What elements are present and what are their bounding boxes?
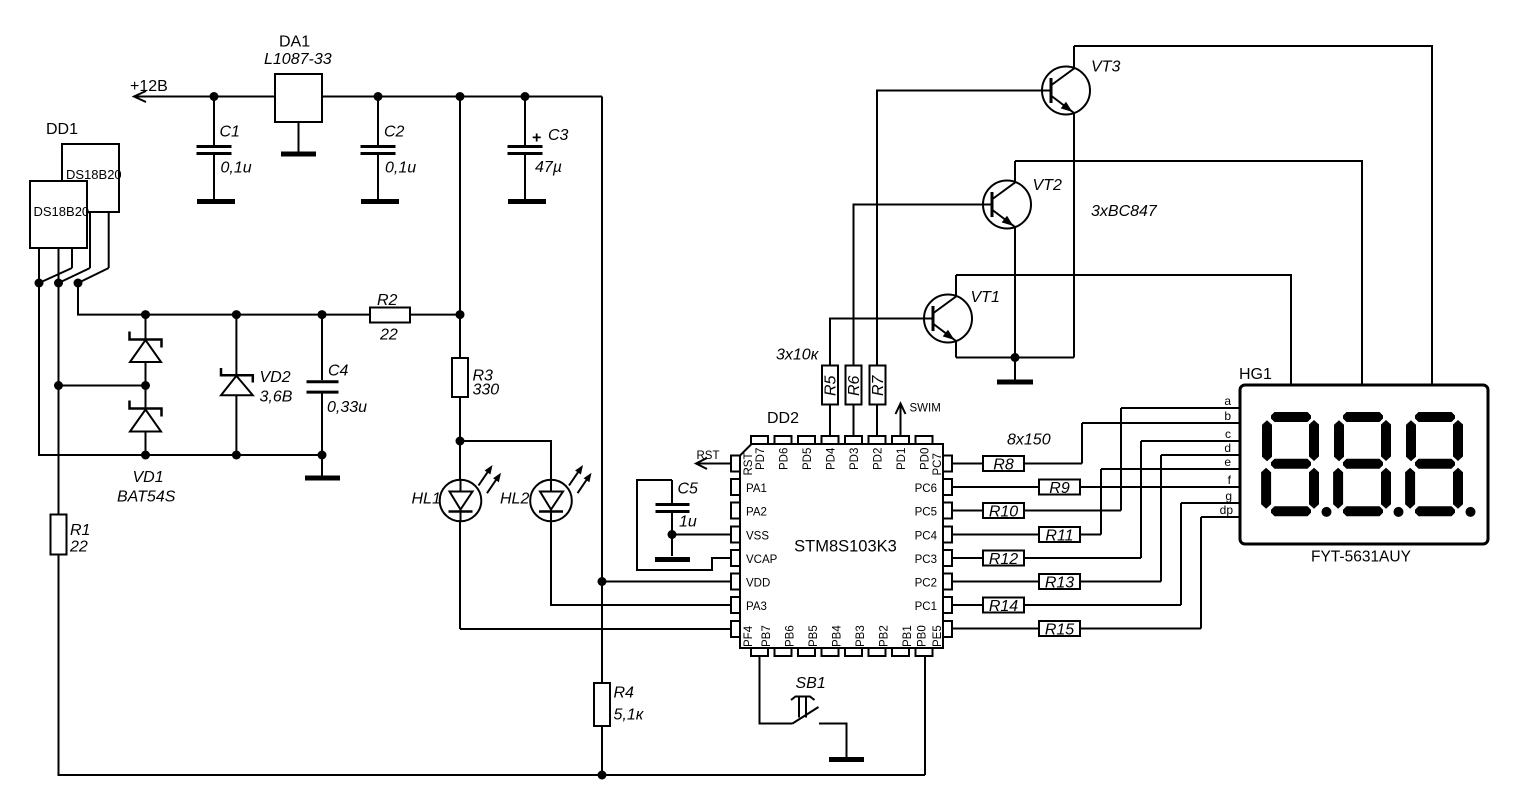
svg-text:PA2: PA2 [746,507,767,519]
svg-text:PC4: PC4 [915,531,938,543]
svg-text:dp: dp [1220,503,1234,517]
MCU pins top [751,436,933,444]
svg-text:PC5: PC5 [915,507,937,519]
wire HL1 cathode down [459,521,461,629]
wire VT3 emitter down [1073,113,1075,358]
resistor R15 [952,628,1201,630]
MCU pin labels bottom [761,625,929,647]
svg-text:PA3: PA3 [746,601,767,613]
wire C4 gnd stub [321,455,323,476]
resistor R3 [452,358,468,397]
node junction VD2 bottom [232,451,241,460]
svg-text:22: 22 [379,327,398,344]
wire R15 riser to dp [1200,517,1202,629]
svg-text:PD4: PD4 [826,447,838,470]
svg-text:PC6: PC6 [915,483,937,495]
diode VD1 upper schottky [130,315,162,386]
svg-text:R11: R11 [1045,528,1073,545]
ground C3 [508,199,546,204]
wire PB0 to bottom rail [924,656,926,775]
node junction DQ tap [54,381,63,390]
svg-text:C5: C5 [678,481,699,498]
wire front sensor pin 2 [58,248,60,283]
svg-text:R2: R2 [377,292,398,309]
wire R4 bottom [601,726,603,775]
wire rear sensor pin GND stub [71,248,73,268]
svg-text:PB0: PB0 [917,625,929,647]
transistor VT2 [983,161,1062,243]
wire DA1 gnd lead [298,122,300,152]
node junction VD1 top [141,310,150,319]
wire RST [696,463,731,465]
arrow RST [696,458,707,469]
MCU pin labels left [743,453,778,648]
svg-text:PD1: PD1 [896,448,908,470]
wire VT2 emitter down [1014,227,1016,358]
svg-text:VT3: VT3 [1091,59,1120,76]
node junction C1 [210,92,219,101]
ground DA1 [281,152,316,157]
wire PD4 to R5 [829,405,831,437]
wire R8 riser to b [1081,423,1083,464]
svg-text:3,6В: 3,6В [260,389,293,406]
wire HL1 cathode to PF4 [460,628,731,630]
svg-text:d: d [1224,441,1231,455]
wire R7 to VT3 base [877,91,1051,366]
wire segment line c [1141,440,1240,442]
svg-text:330: 330 [473,382,500,399]
svg-text:VSS: VSS [746,531,769,543]
node junction C4 bottom [318,451,327,460]
resistor R13 [952,581,1161,583]
wire diagonal rear GND to bus1 [39,268,72,283]
node junction emitters [1011,353,1020,362]
node junction C3 [521,92,530,101]
svg-text:R12: R12 [989,551,1018,568]
wire R5 to VT1 base [830,319,933,366]
node junction C2 [374,92,383,101]
ground emitters [997,380,1033,385]
svg-text:R13: R13 [1045,575,1074,592]
wire VD1 mid tap [59,385,146,387]
svg-text:FYT-5631AUY: FYT-5631AUY [1311,549,1411,566]
resistor R8 [952,463,1082,465]
node junction C5 VSS [668,530,677,539]
wire vertical 3.3V to R3 [459,97,461,359]
wire R6 to VT2 base [854,205,993,366]
wire DQ bus down to R1 [58,283,60,514]
LED HL2 [530,465,591,521]
wire R12 riser to c [1140,441,1142,558]
wire 3.3V vertical rail to VDD and R4 [601,97,603,582]
MCU pin labels right [915,453,944,647]
svg-text:VD1: VD1 [133,469,164,486]
svg-text:R14: R14 [989,598,1018,615]
svg-text:DD1: DD1 [46,121,78,138]
svg-text:R7: R7 [870,374,887,396]
wire VT2 collector to display [1015,161,1362,385]
wire +12V rail left of DA1 [134,96,275,98]
wire VSS line [672,534,731,536]
display HG1 FYT-5631AUY [1240,385,1488,544]
svg-text:C2: C2 [384,124,405,141]
svg-text:1u: 1u [679,514,697,531]
wire vertical to R4 [601,582,603,684]
node junction VD1 mid [141,381,150,390]
svg-text:PD0: PD0 [920,448,932,470]
svg-text:PE5: PE5 [932,625,944,647]
svg-text:47µ: 47µ [535,159,562,176]
svg-text:PC7: PC7 [932,453,944,475]
wire segment line e [1101,468,1240,470]
capacitor C3 polarized [508,97,569,200]
svg-text:BAT54S: BAT54S [117,489,176,506]
arrow SWIM [900,405,902,436]
wire segment line g [1181,502,1240,504]
resistor R7 [870,366,886,405]
MCU pins left [731,456,740,638]
node junction R2 right [456,310,465,319]
svg-text:PC2: PC2 [915,578,937,590]
wire front sensor pin 1 [38,248,40,283]
wire to HL2 anode [460,441,551,480]
svg-text:VDD: VDD [746,578,770,590]
svg-text:VD2: VD2 [260,369,291,386]
wire R11 riser to e [1100,469,1102,535]
wire VDD line [602,581,731,583]
svg-text:PF4: PF4 [743,625,755,647]
svg-text:C4: C4 [328,363,349,380]
node junction bottom rail R4 [598,771,607,780]
svg-text:c: c [1225,427,1231,441]
wire segment line a [1121,407,1240,409]
svg-text:C1: C1 [220,124,240,141]
svg-text:SB1: SB1 [796,675,826,692]
resistor R6 [846,366,862,405]
svg-text:R10: R10 [989,504,1018,521]
wire diagonal rear VDD to bus3 [78,268,109,283]
wire rear sensor pin DQ [89,212,91,268]
capacitor C4 [307,315,368,455]
node bus3 junction [74,279,83,288]
svg-text:RST: RST [743,453,755,476]
wire R10 riser to a [1120,408,1122,511]
svg-text:VT1: VT1 [971,289,1000,306]
node junction LED anodes [456,437,465,446]
node junction VD2 top [232,310,241,319]
resistor R14 [952,604,1181,606]
svg-text:DS18B20: DS18B20 [34,204,90,219]
svg-text:PD7: PD7 [755,448,767,470]
svg-text:R15: R15 [1045,622,1074,639]
MCU pins right [943,456,952,638]
diode VD2 zener [221,315,253,455]
svg-text:PB5: PB5 [808,625,820,647]
wire diagonal rear DQ to bus2 [59,268,91,283]
resistor R4 [594,683,610,726]
svg-text:PD3: PD3 [849,448,861,470]
svg-text:g: g [1225,489,1232,503]
svg-text:PB6: PB6 [785,625,797,647]
voltage regulator DA1 [275,74,322,122]
svg-text:+: + [532,130,541,147]
wire emitter gnd stub [1014,358,1016,380]
seven segment digits [1261,412,1475,517]
wire segment line dp [1201,516,1240,518]
resistor R5 [822,366,838,405]
node junction VDD branch [598,577,607,586]
MCU pins bottom [751,648,933,656]
svg-text:0,1u: 0,1u [385,160,416,177]
transistor VT1 [924,275,1000,358]
svg-text:HL2: HL2 [500,491,529,508]
resistor R11 [952,534,1101,536]
capacitor C1 [197,97,252,200]
node junction C4 top [318,310,327,319]
svg-text:HL1: HL1 [412,491,441,508]
svg-text:VT2: VT2 [1033,177,1062,194]
svg-text:DD2: DD2 [767,410,799,427]
wire R13 riser to d [1160,455,1162,582]
resistor R12 [952,557,1141,559]
svg-text:3xBC847: 3xBC847 [1091,203,1158,220]
svg-text:e: e [1224,455,1231,469]
wire R2 to vertical [410,314,460,316]
sensor DD1 front DS18B20 [30,181,87,248]
svg-text:VCAP: VCAP [746,554,778,566]
svg-text:C3: C3 [548,127,569,144]
svg-text:PD5: PD5 [802,448,814,470]
svg-text:PD6: PD6 [779,448,791,470]
svg-text:PB2: PB2 [879,625,891,647]
resistor R1 [51,515,67,555]
button SB1 [760,656,847,757]
svg-text:SWIM: SWIM [910,403,941,415]
wire 3.3V rail right of DA1 [322,96,602,98]
svg-text:STM8S103K3: STM8S103K3 [794,538,897,556]
wire segment line d [1161,454,1240,456]
wire emitter rail [956,357,1074,359]
svg-text:PC3: PC3 [915,554,937,566]
wire gnd bus down to bottom of diode row [39,283,322,455]
resistor R2 [370,308,410,323]
ground SB1 [829,757,864,762]
svg-text:DS18B20: DS18B20 [66,167,122,182]
sensor DD1 rear DS18B20 [62,144,119,212]
svg-text:DA1: DA1 [279,34,310,51]
node segment pin labels [1220,394,1234,517]
svg-text:PB7: PB7 [761,625,773,647]
svg-text:0,33u: 0,33u [327,399,367,416]
MCU DD2 STM8S103K3 [740,444,943,648]
svg-text:5,1к: 5,1к [614,707,645,724]
svg-text:a: a [1224,394,1231,408]
svg-text:22: 22 [69,539,88,556]
svg-text:+12В: +12В [130,78,168,95]
svg-text:R8: R8 [993,457,1014,474]
svg-text:R4: R4 [614,685,635,702]
svg-text:b: b [1224,409,1231,423]
svg-text:8x150: 8x150 [1007,432,1051,449]
wire PD2 to R7 [876,405,878,437]
node junction R2 branch [456,92,465,101]
diode VD1 lower schottky [130,386,162,456]
svg-text:RST: RST [697,450,720,462]
wire R1 bottom to bottom rail [59,555,926,776]
svg-text:R5: R5 [823,375,840,396]
ground C5 [655,557,690,562]
capacitor C2 [361,97,417,200]
ground C1 [197,199,235,204]
svg-text:HG1: HG1 [1239,366,1272,383]
resistor R9 [952,486,1240,488]
wire HL1 anode [459,441,461,480]
svg-text:PD2: PD2 [873,448,885,470]
wire rear sensor pin VDD [108,212,110,268]
svg-text:PB4: PB4 [832,625,844,647]
wire VT3 collector to display [1074,46,1432,385]
wire HL2 cathode to PA3 [551,521,731,605]
svg-text:L1087-33: L1087-33 [264,51,332,68]
svg-text:PB3: PB3 [855,625,867,647]
svg-text:R9: R9 [1049,480,1070,497]
wire R14 riser to g [1180,503,1182,605]
svg-text:PA1: PA1 [746,483,767,495]
wire VT1 collector to display [956,275,1291,385]
MCU pin labels top [755,447,932,470]
svg-text:R6: R6 [846,375,863,396]
LED HL1 [440,465,501,521]
ground C2 [361,199,399,204]
resistor R10 [952,510,1121,512]
wire PD3 to R6 [853,405,855,437]
node junction VD1 bottom [141,451,150,460]
node bus1 junction [35,279,44,288]
ground C4 [305,476,340,481]
wire R3 bottom to LED node [459,397,461,441]
capacitor C5 [637,480,731,570]
arrow +12V [134,91,146,102]
node bus2 junction [54,279,63,288]
wire segment line b [1082,422,1240,424]
transistor VT3 [1042,46,1120,129]
svg-text:PC1: PC1 [915,601,937,613]
svg-text:R1: R1 [70,522,90,539]
svg-text:0,1u: 0,1u [221,160,252,177]
wire VDD bus to sensor supply rail [78,283,370,315]
svg-text:3x10к: 3x10к [776,347,820,364]
svg-text:PB1: PB1 [902,625,914,647]
